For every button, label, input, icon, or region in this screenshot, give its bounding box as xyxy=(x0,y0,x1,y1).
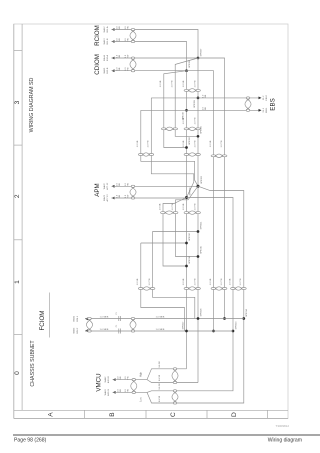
svg-text:A30:61: A30:61 xyxy=(107,388,110,396)
wire P4-L xyxy=(158,198,234,391)
wire branch Q2-H from splice xyxy=(175,58,198,136)
svg-text:APM: APM xyxy=(94,183,101,196)
EBS pin 2 arrow xyxy=(259,109,262,112)
svg-text:1.0 SB/B: 1.0 SB/B xyxy=(100,316,109,318)
svg-text:1.0 SB: 1.0 SB xyxy=(183,140,185,147)
svg-text:RCIOM: RCIOM xyxy=(94,25,101,46)
CDIOM pin 1 arrow xyxy=(112,57,115,60)
splice P4-H chassis wire end xyxy=(242,317,245,320)
svg-text:B34:2: B34:2 xyxy=(77,327,79,333)
wire VMCU out1 to CAN-L xyxy=(158,368,187,370)
APM pin 2 arrow xyxy=(112,197,115,200)
svg-text:1.0 SB: 1.0 SB xyxy=(137,278,139,285)
twisted pair main bus 3 xyxy=(184,154,189,156)
wire VMCU high split xyxy=(144,369,158,380)
svg-text:1.0 SB/B: 1.0 SB/B xyxy=(156,329,165,331)
star splice CAN-H SP8303 xyxy=(197,185,200,188)
svg-text:T3009812: T3009812 xyxy=(275,424,289,428)
wire P2-H xyxy=(198,58,225,319)
twisted pair VMCU xyxy=(132,379,136,381)
splice P2-L on chassis wire xyxy=(212,330,215,333)
wire CAN-H main bus xyxy=(197,58,199,383)
wire branch Q2-L from splice xyxy=(164,71,187,148)
svg-text:1.0 TW: 1.0 TW xyxy=(240,278,242,286)
svg-text:1.0 SB: 1.0 SB xyxy=(183,278,185,285)
svg-text:B10:B: B10:B xyxy=(107,67,109,73)
svg-text:0.8 SB: 0.8 SB xyxy=(159,361,161,368)
EBS pin 1 arrow xyxy=(259,97,262,100)
svg-text:SP8313: SP8313 xyxy=(235,321,237,330)
svg-text:SP8314: SP8314 xyxy=(246,308,248,317)
splice CAN-L row4 xyxy=(185,242,188,245)
connect bus ends xyxy=(186,368,188,370)
svg-text:X1:1: X1:1 xyxy=(263,107,265,112)
wire CDIOM CAN-H xyxy=(112,57,199,59)
twisted pair EBS xyxy=(246,97,250,99)
svg-text:1.0 SB/B: 1.0 SB/B xyxy=(156,316,165,318)
svg-text:WA12: WA12 xyxy=(103,26,106,33)
svg-text:Wiring diagram: Wiring diagram xyxy=(268,438,302,444)
svg-text:A: A xyxy=(48,412,55,417)
wire P4-H xyxy=(158,186,244,403)
svg-text:0.8 SB: 0.8 SB xyxy=(159,395,161,402)
wire loop-L drop xyxy=(141,243,185,331)
svg-text:1.0 SB: 1.0 SB xyxy=(210,140,212,147)
twisted pair P4 xyxy=(231,288,236,290)
svg-text:SP8309: SP8309 xyxy=(194,99,196,108)
svg-text:1.0 TW: 1.0 TW xyxy=(149,278,151,286)
wire Q1-A EBS-H drop xyxy=(151,98,194,198)
svg-text:A30:60: A30:60 xyxy=(107,375,110,383)
twisted pair Q1 xyxy=(138,154,143,156)
svg-text:SP8304: SP8304 xyxy=(190,187,192,196)
svg-text:WA43: WA43 xyxy=(104,389,107,396)
svg-text:0.8 SB: 0.8 SB xyxy=(159,374,161,381)
splice on CAN-L row3 xyxy=(185,146,188,149)
svg-text:SP8305: SP8305 xyxy=(201,125,203,134)
splice CAN-H row4 xyxy=(197,230,200,233)
splice EBS CAN-L xyxy=(185,109,188,112)
svg-text:WIRING DIAGRAM SD: WIRING DIAGRAM SD xyxy=(29,77,35,132)
twisted pair main bus 5 xyxy=(184,288,189,290)
svg-text:1.0 SB/B: 1.0 SB/B xyxy=(100,329,109,331)
twisted pair RCIOM xyxy=(131,28,135,30)
svg-text:1.0 TW: 1.0 TW xyxy=(194,278,196,286)
svg-text:1.0 SB: 1.0 SB xyxy=(137,140,139,147)
twisted pair VMCU out lower xyxy=(173,390,177,392)
svg-text:2: 2 xyxy=(14,194,21,198)
svg-text:0: 0 xyxy=(14,371,21,375)
svg-text:B11:A: B11:A xyxy=(106,26,109,32)
svg-text:1.0 TW: 1.0 TW xyxy=(221,278,223,286)
svg-text:0.8 SB: 0.8 SB xyxy=(159,383,161,390)
svg-text:1.0 TW: 1.0 TW xyxy=(148,140,150,148)
svg-text:CDIOM: CDIOM xyxy=(94,54,101,75)
svg-text:A77:12: A77:12 xyxy=(106,182,109,190)
svg-text:SP8315: SP8315 xyxy=(201,245,203,254)
splice chassis CAN-H main xyxy=(197,317,200,320)
svg-text:EBS: EBS xyxy=(270,98,277,110)
svg-text:3: 3 xyxy=(14,100,21,104)
wire chassis CAN-L xyxy=(85,330,233,332)
grid reference column band line xyxy=(21,24,23,410)
RCIOM pin 1 arrow xyxy=(112,28,115,31)
twisted pair APM xyxy=(131,185,135,187)
svg-text:B11:B: B11:B xyxy=(107,38,109,44)
svg-text:1.0 TW: 1.0 TW xyxy=(194,117,196,125)
svg-text:1.0 SB: 1.0 SB xyxy=(183,80,185,87)
FCIOM pin 2 arrow xyxy=(85,329,88,332)
svg-text:WA42: WA42 xyxy=(104,376,107,383)
splice SP CAN-L top xyxy=(185,69,188,72)
svg-text:1.0 TW: 1.0 TW xyxy=(194,203,196,211)
wire loop-H drop xyxy=(153,232,195,319)
grid column ticks xyxy=(14,49,22,51)
twisted pair loop xyxy=(138,288,143,290)
svg-text:SP8312: SP8312 xyxy=(189,232,191,241)
wire APM CAN-H xyxy=(112,185,199,187)
twisted pair CDIOM xyxy=(131,57,135,59)
svg-text:1.0 SB: 1.0 SB xyxy=(210,278,212,285)
svg-text:A77:13: A77:13 xyxy=(106,194,109,202)
wire VMCU CAN-L xyxy=(113,391,144,393)
wire RCIOM CAN-L xyxy=(112,42,187,71)
svg-text:High: High xyxy=(141,371,143,376)
svg-text:SP8303: SP8303 xyxy=(201,175,203,184)
twisted pair P2 lower xyxy=(211,288,216,290)
svg-text:WA15: WA15 xyxy=(103,67,106,74)
twisted pair main bus 1 xyxy=(184,89,189,91)
svg-text:EB11: EB11 xyxy=(266,107,268,113)
wire chassis CAN-H xyxy=(85,318,244,320)
twisted pair main bus 4 xyxy=(184,212,189,214)
svg-text:1.0 SB: 1.0 SB xyxy=(160,80,162,87)
wire P3-H xyxy=(176,186,199,256)
star splice CAN-L SP8304 xyxy=(185,196,188,199)
svg-text:SP8316: SP8316 xyxy=(189,255,191,264)
twisted pair P2 upper xyxy=(211,155,216,157)
svg-text:1.0 TW: 1.0 TW xyxy=(194,140,196,148)
footer separator rule xyxy=(13,434,320,436)
svg-text:SP8311: SP8311 xyxy=(201,221,203,229)
svg-text:WA22: WA22 xyxy=(103,183,106,190)
svg-text:WA23: WA23 xyxy=(103,194,106,201)
svg-text:SP8306: SP8306 xyxy=(189,136,191,145)
splice CAN-L row5 xyxy=(185,265,188,268)
inline connector chassis xyxy=(118,316,120,321)
svg-text:1.0 TW: 1.0 TW xyxy=(221,140,223,148)
svg-text:WA13: WA13 xyxy=(103,38,106,45)
splice P2-H on chassis wire xyxy=(223,317,226,320)
svg-text:X1:2: X1:2 xyxy=(263,95,265,100)
grid row ticks xyxy=(84,410,86,418)
svg-text:Low: Low xyxy=(141,397,143,402)
svg-text:SP8310: SP8310 xyxy=(183,111,185,120)
RCIOM pin 2 arrow xyxy=(112,40,115,43)
FCIOM separator line xyxy=(49,293,51,338)
svg-text:VMCU: VMCU xyxy=(96,373,103,391)
wire CAN-L main bus xyxy=(186,71,188,369)
wire VMCU CAN-H xyxy=(113,379,144,381)
svg-text:CHASSIS SUBNET: CHASSIS SUBNET xyxy=(30,340,36,387)
svg-text:1.0 SB: 1.0 SB xyxy=(159,203,161,210)
VMCU pin 1 arrow xyxy=(113,378,116,381)
VMCU pin 2 arrow xyxy=(113,391,116,394)
svg-text:B10:A: B10:A xyxy=(106,54,109,60)
wire VMCU low split xyxy=(144,391,158,393)
twisted pair main bus 2 xyxy=(184,128,189,130)
wire RCIOM CAN-H xyxy=(112,30,199,59)
svg-text:SP8318: SP8318 xyxy=(200,308,202,317)
svg-text:1.0 SB: 1.0 SB xyxy=(229,278,231,285)
splice on CAN-H row3 xyxy=(197,135,200,138)
svg-text:1.0 TW: 1.0 TW xyxy=(194,80,196,88)
twisted pair Q2 xyxy=(161,128,166,130)
wire loop-H xyxy=(153,231,199,233)
svg-text:WA14: WA14 xyxy=(103,54,106,61)
wire Q1-B EBS-L drop xyxy=(141,110,198,186)
svg-text:C: C xyxy=(170,412,177,417)
svg-text:SP8317: SP8317 xyxy=(182,321,184,330)
twisted pair FCIOM 2 xyxy=(131,317,135,319)
svg-text:B34:1: B34:1 xyxy=(77,315,79,321)
wire EBS CAN-H xyxy=(151,97,258,99)
twisted pair FCIOM 1 xyxy=(88,317,92,319)
svg-text:WA33: WA33 xyxy=(73,327,76,334)
FCIOM pin 1 arrow xyxy=(85,317,88,320)
wire EBS CAN-L xyxy=(141,109,259,111)
svg-text:EB12: EB12 xyxy=(266,94,268,100)
svg-text:1.0 TW: 1.0 TW xyxy=(172,203,174,211)
splice P4-L chassis wire end xyxy=(232,330,235,333)
splice EBS CAN-H xyxy=(197,97,200,100)
wire P3-L xyxy=(163,198,187,267)
splice SP CAN-H top xyxy=(197,57,200,60)
svg-text:Page 98 (268): Page 98 (268) xyxy=(14,438,47,444)
wire CDIOM CAN-L xyxy=(112,70,187,72)
svg-text:FCIOM: FCIOM xyxy=(39,311,46,331)
twisted pair VMCU out upper xyxy=(173,368,177,370)
svg-text:WA32: WA32 xyxy=(73,315,76,322)
svg-text:1.0 SB: 1.0 SB xyxy=(183,203,185,210)
svg-text:1: 1 xyxy=(14,280,21,284)
twisted pair P3 xyxy=(161,212,166,214)
wire P2-L xyxy=(187,71,214,331)
svg-text:SP8307: SP8307 xyxy=(201,48,203,57)
wire APM CAN-L xyxy=(112,197,187,199)
CDIOM pin 2 arrow xyxy=(112,69,115,72)
svg-text:D: D xyxy=(231,412,238,417)
drawing frame border xyxy=(14,24,288,418)
APM pin 1 arrow xyxy=(112,185,115,188)
splice CAN-H row5 xyxy=(197,255,200,258)
svg-text:B: B xyxy=(109,412,116,417)
svg-text:1.0 TW: 1.0 TW xyxy=(172,80,174,88)
wire loop-L xyxy=(141,242,187,244)
grid reference row band line xyxy=(14,409,288,411)
splice chassis CAN-L main xyxy=(185,330,188,333)
wire VMCU out2 to CAN-H xyxy=(158,382,199,384)
